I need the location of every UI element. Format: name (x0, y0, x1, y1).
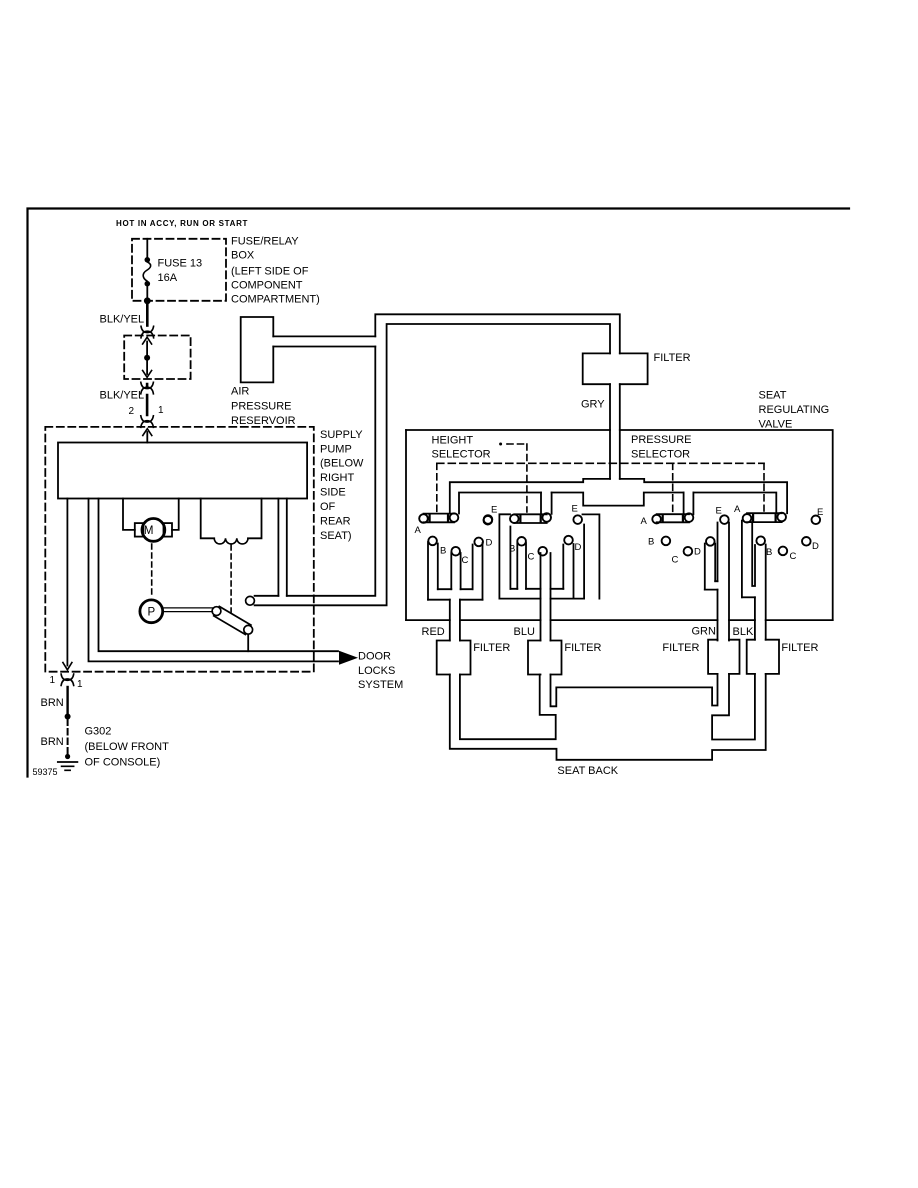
svg-text:FILTER: FILTER (781, 642, 818, 654)
svg-text:SYSTEM: SYSTEM (358, 679, 403, 691)
svg-text:LOCKS: LOCKS (358, 665, 395, 677)
svg-text:E: E (572, 504, 578, 515)
svg-text:DOOR: DOOR (358, 651, 391, 663)
svg-text:REGULATING: REGULATING (759, 404, 830, 416)
svg-text:A: A (415, 525, 422, 536)
svg-text:SIDE: SIDE (320, 486, 346, 498)
svg-text:BLK/YEL: BLK/YEL (100, 314, 145, 326)
svg-text:SUPPLY: SUPPLY (320, 429, 363, 441)
svg-text:E: E (716, 506, 722, 517)
svg-text:PRESSURE: PRESSURE (631, 434, 692, 446)
svg-text:RED: RED (422, 626, 445, 638)
svg-text:BOX: BOX (231, 249, 255, 261)
svg-text:SEAT: SEAT (759, 389, 787, 401)
svg-text:RESERVOIR: RESERVOIR (231, 415, 296, 427)
svg-text:E: E (491, 505, 497, 516)
svg-text:SELECTOR: SELECTOR (432, 449, 491, 461)
svg-text:B: B (766, 547, 772, 558)
svg-text:FILTER: FILTER (662, 642, 699, 654)
svg-text:C: C (462, 555, 469, 566)
svg-text:FUSE 13: FUSE 13 (158, 258, 203, 270)
svg-text:GRN: GRN (692, 626, 717, 638)
svg-text:BLU: BLU (514, 626, 535, 638)
svg-text:OF CONSOLE): OF CONSOLE) (85, 757, 161, 769)
svg-text:FILTER: FILTER (473, 642, 510, 654)
svg-text:GRY: GRY (581, 398, 605, 410)
svg-text:SELECTOR: SELECTOR (631, 448, 690, 460)
svg-text:OF: OF (320, 501, 336, 513)
svg-text:C: C (672, 555, 679, 566)
svg-text:D: D (486, 538, 493, 549)
svg-text:BRN: BRN (41, 736, 64, 748)
svg-text:REAR: REAR (320, 515, 351, 527)
svg-text:1: 1 (50, 675, 56, 686)
svg-text:C: C (528, 552, 535, 563)
svg-text:FILTER: FILTER (564, 642, 601, 654)
svg-text:2: 2 (129, 406, 135, 417)
svg-text:M: M (144, 525, 154, 537)
svg-text:(BELOW: (BELOW (320, 458, 364, 470)
svg-text:59375: 59375 (33, 767, 58, 777)
svg-text:COMPONENT: COMPONENT (231, 280, 303, 292)
svg-text:PRESSURE: PRESSURE (231, 400, 292, 412)
svg-text:FILTER: FILTER (654, 352, 691, 364)
svg-text:SEAT BACK: SEAT BACK (557, 765, 618, 777)
svg-text:HOT IN ACCY, RUN OR START: HOT IN ACCY, RUN OR START (116, 219, 248, 228)
svg-text:D: D (812, 541, 819, 552)
svg-text:A: A (734, 504, 741, 515)
svg-text:B: B (648, 537, 654, 548)
svg-text:RIGHT: RIGHT (320, 472, 355, 484)
svg-text:COMPARTMENT): COMPARTMENT) (231, 294, 320, 306)
svg-text:E: E (817, 507, 823, 518)
svg-text:BRN: BRN (41, 697, 64, 709)
svg-text:BLK: BLK (733, 626, 754, 638)
svg-text:B: B (509, 544, 515, 555)
svg-text:A: A (641, 516, 648, 527)
svg-text:AIR: AIR (231, 385, 249, 397)
svg-text:D: D (694, 547, 701, 558)
svg-text:BLK/YEL: BLK/YEL (100, 390, 145, 402)
svg-text:G302: G302 (85, 725, 112, 737)
svg-text:P: P (147, 607, 155, 619)
svg-text:16A: 16A (158, 272, 178, 284)
svg-text:B: B (440, 546, 446, 557)
svg-text:FUSE/RELAY: FUSE/RELAY (231, 235, 299, 247)
svg-text:C: C (790, 551, 797, 562)
svg-text:PUMP: PUMP (320, 443, 352, 455)
svg-text:VALVE: VALVE (759, 419, 793, 431)
svg-text:SEAT): SEAT) (320, 530, 352, 542)
svg-text:1: 1 (77, 679, 83, 690)
svg-text:(LEFT SIDE OF: (LEFT SIDE OF (231, 266, 309, 278)
svg-text:1: 1 (158, 405, 164, 416)
svg-text:HEIGHT: HEIGHT (432, 435, 474, 447)
svg-text:D: D (575, 542, 582, 553)
svg-text:(BELOW FRONT: (BELOW FRONT (85, 741, 170, 753)
